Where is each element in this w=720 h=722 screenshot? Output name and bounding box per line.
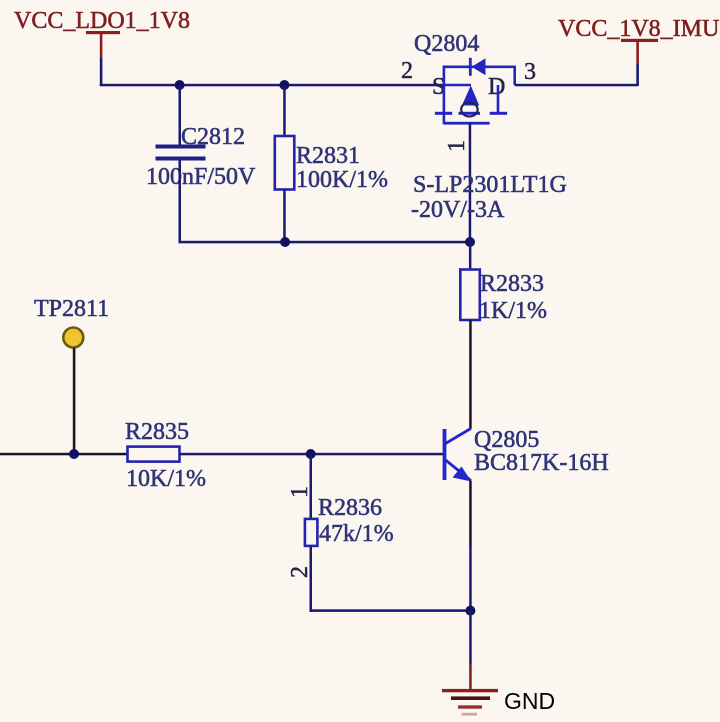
ground symbol <box>442 689 498 716</box>
svg-text:2: 2 <box>287 566 313 578</box>
mosfet Q2804 body diode <box>470 58 485 76</box>
power bar symbol VCC_LDO1_1V8 <box>86 31 120 34</box>
svg-text:-20V/-3A: -20V/-3A <box>411 197 505 223</box>
wire power stub VCC_1V8_IMU <box>636 42 639 86</box>
resistor R2835 <box>128 447 180 462</box>
junction dot R2831 top <box>279 80 289 90</box>
mosfet Q2804 bulk circle <box>461 103 477 117</box>
wire C2812 upper lead <box>179 85 182 145</box>
wire rail lower (C2812 to gate node) <box>179 241 471 244</box>
svg-text:S-LP2301LT1G: S-LP2301LT1G <box>413 172 567 198</box>
svg-text:VCC_LDO1_1V8: VCC_LDO1_1V8 <box>14 8 190 34</box>
wire Q2804 drain to VCC_1V8_IMU <box>515 84 638 87</box>
mosfet Q2804 channel bars <box>435 112 507 115</box>
mosfet Q2804 substrate arrow <box>462 86 479 106</box>
svg-text:100K/1%: 100K/1% <box>296 167 388 193</box>
power bar symbol VCC_1V8_IMU <box>621 39 658 42</box>
svg-text:C2812: C2812 <box>181 124 245 150</box>
wire rail top (VCC to Q2804 source) <box>100 84 445 87</box>
svg-text:1: 1 <box>444 140 470 152</box>
svg-text:R2835: R2835 <box>125 419 189 445</box>
svg-text:D: D <box>488 74 505 100</box>
transistor Q2805 <box>443 429 472 482</box>
svg-text:R2833: R2833 <box>480 271 544 297</box>
junction dot C2812 top <box>175 80 185 90</box>
wire Q2804 gate to node <box>469 123 472 242</box>
svg-text:R2836: R2836 <box>318 495 382 521</box>
wire emitter node to ground <box>469 611 472 690</box>
capacitor C2812 <box>156 145 206 161</box>
testpoint TP2811 pad <box>63 328 83 348</box>
svg-text:TP2811: TP2811 <box>34 296 109 322</box>
wire C2812 lower lead <box>179 161 182 244</box>
svg-text:Q2804: Q2804 <box>414 31 479 57</box>
svg-text:1K/1%: 1K/1% <box>479 298 547 324</box>
wire gate node to R2833 <box>469 242 472 270</box>
mosfet Q2804 body <box>444 66 515 125</box>
junction dot TP2811 <box>69 449 79 459</box>
svg-text:VCC_1V8_IMU: VCC_1V8_IMU <box>558 16 719 42</box>
wire bottom rail (R2836 to emitter node) <box>310 609 472 612</box>
resistor R2833 <box>460 270 480 321</box>
wire power stub VCC_LDO1_1V8 <box>100 34 103 86</box>
wire Q2805 emitter down <box>469 481 472 612</box>
mosfet Q2804 gate bar <box>444 122 490 125</box>
svg-text:3: 3 <box>524 59 536 85</box>
junction dot R2836 top <box>306 449 316 459</box>
wire base rail left <box>0 453 128 456</box>
wire R2836 lower lead <box>310 546 313 612</box>
wire R2831 upper lead <box>283 85 286 136</box>
wire base rail right <box>180 453 444 456</box>
wire R2831 lower lead <box>283 190 286 244</box>
wire R2836 upper lead <box>310 454 313 519</box>
wire R2833 to Q2805 collector <box>469 320 472 429</box>
svg-text:BC817K-16H: BC817K-16H <box>474 450 609 476</box>
junction dot R2831 bottom <box>280 237 290 247</box>
svg-text:10K/1%: 10K/1% <box>126 466 206 492</box>
svg-text:GND: GND <box>504 688 555 714</box>
wire TP2811 to base rail <box>73 348 76 454</box>
resistor R2836 <box>305 519 318 546</box>
svg-text:47k/1%: 47k/1% <box>319 521 394 547</box>
svg-text:100nF/50V: 100nF/50V <box>146 164 256 190</box>
svg-text:1: 1 <box>287 486 313 498</box>
junction dot gate node <box>465 237 475 247</box>
svg-text:R2831: R2831 <box>296 143 360 169</box>
resistor R2831 <box>275 136 295 190</box>
svg-text:2: 2 <box>401 58 413 84</box>
junction dot emitter node <box>465 606 475 616</box>
